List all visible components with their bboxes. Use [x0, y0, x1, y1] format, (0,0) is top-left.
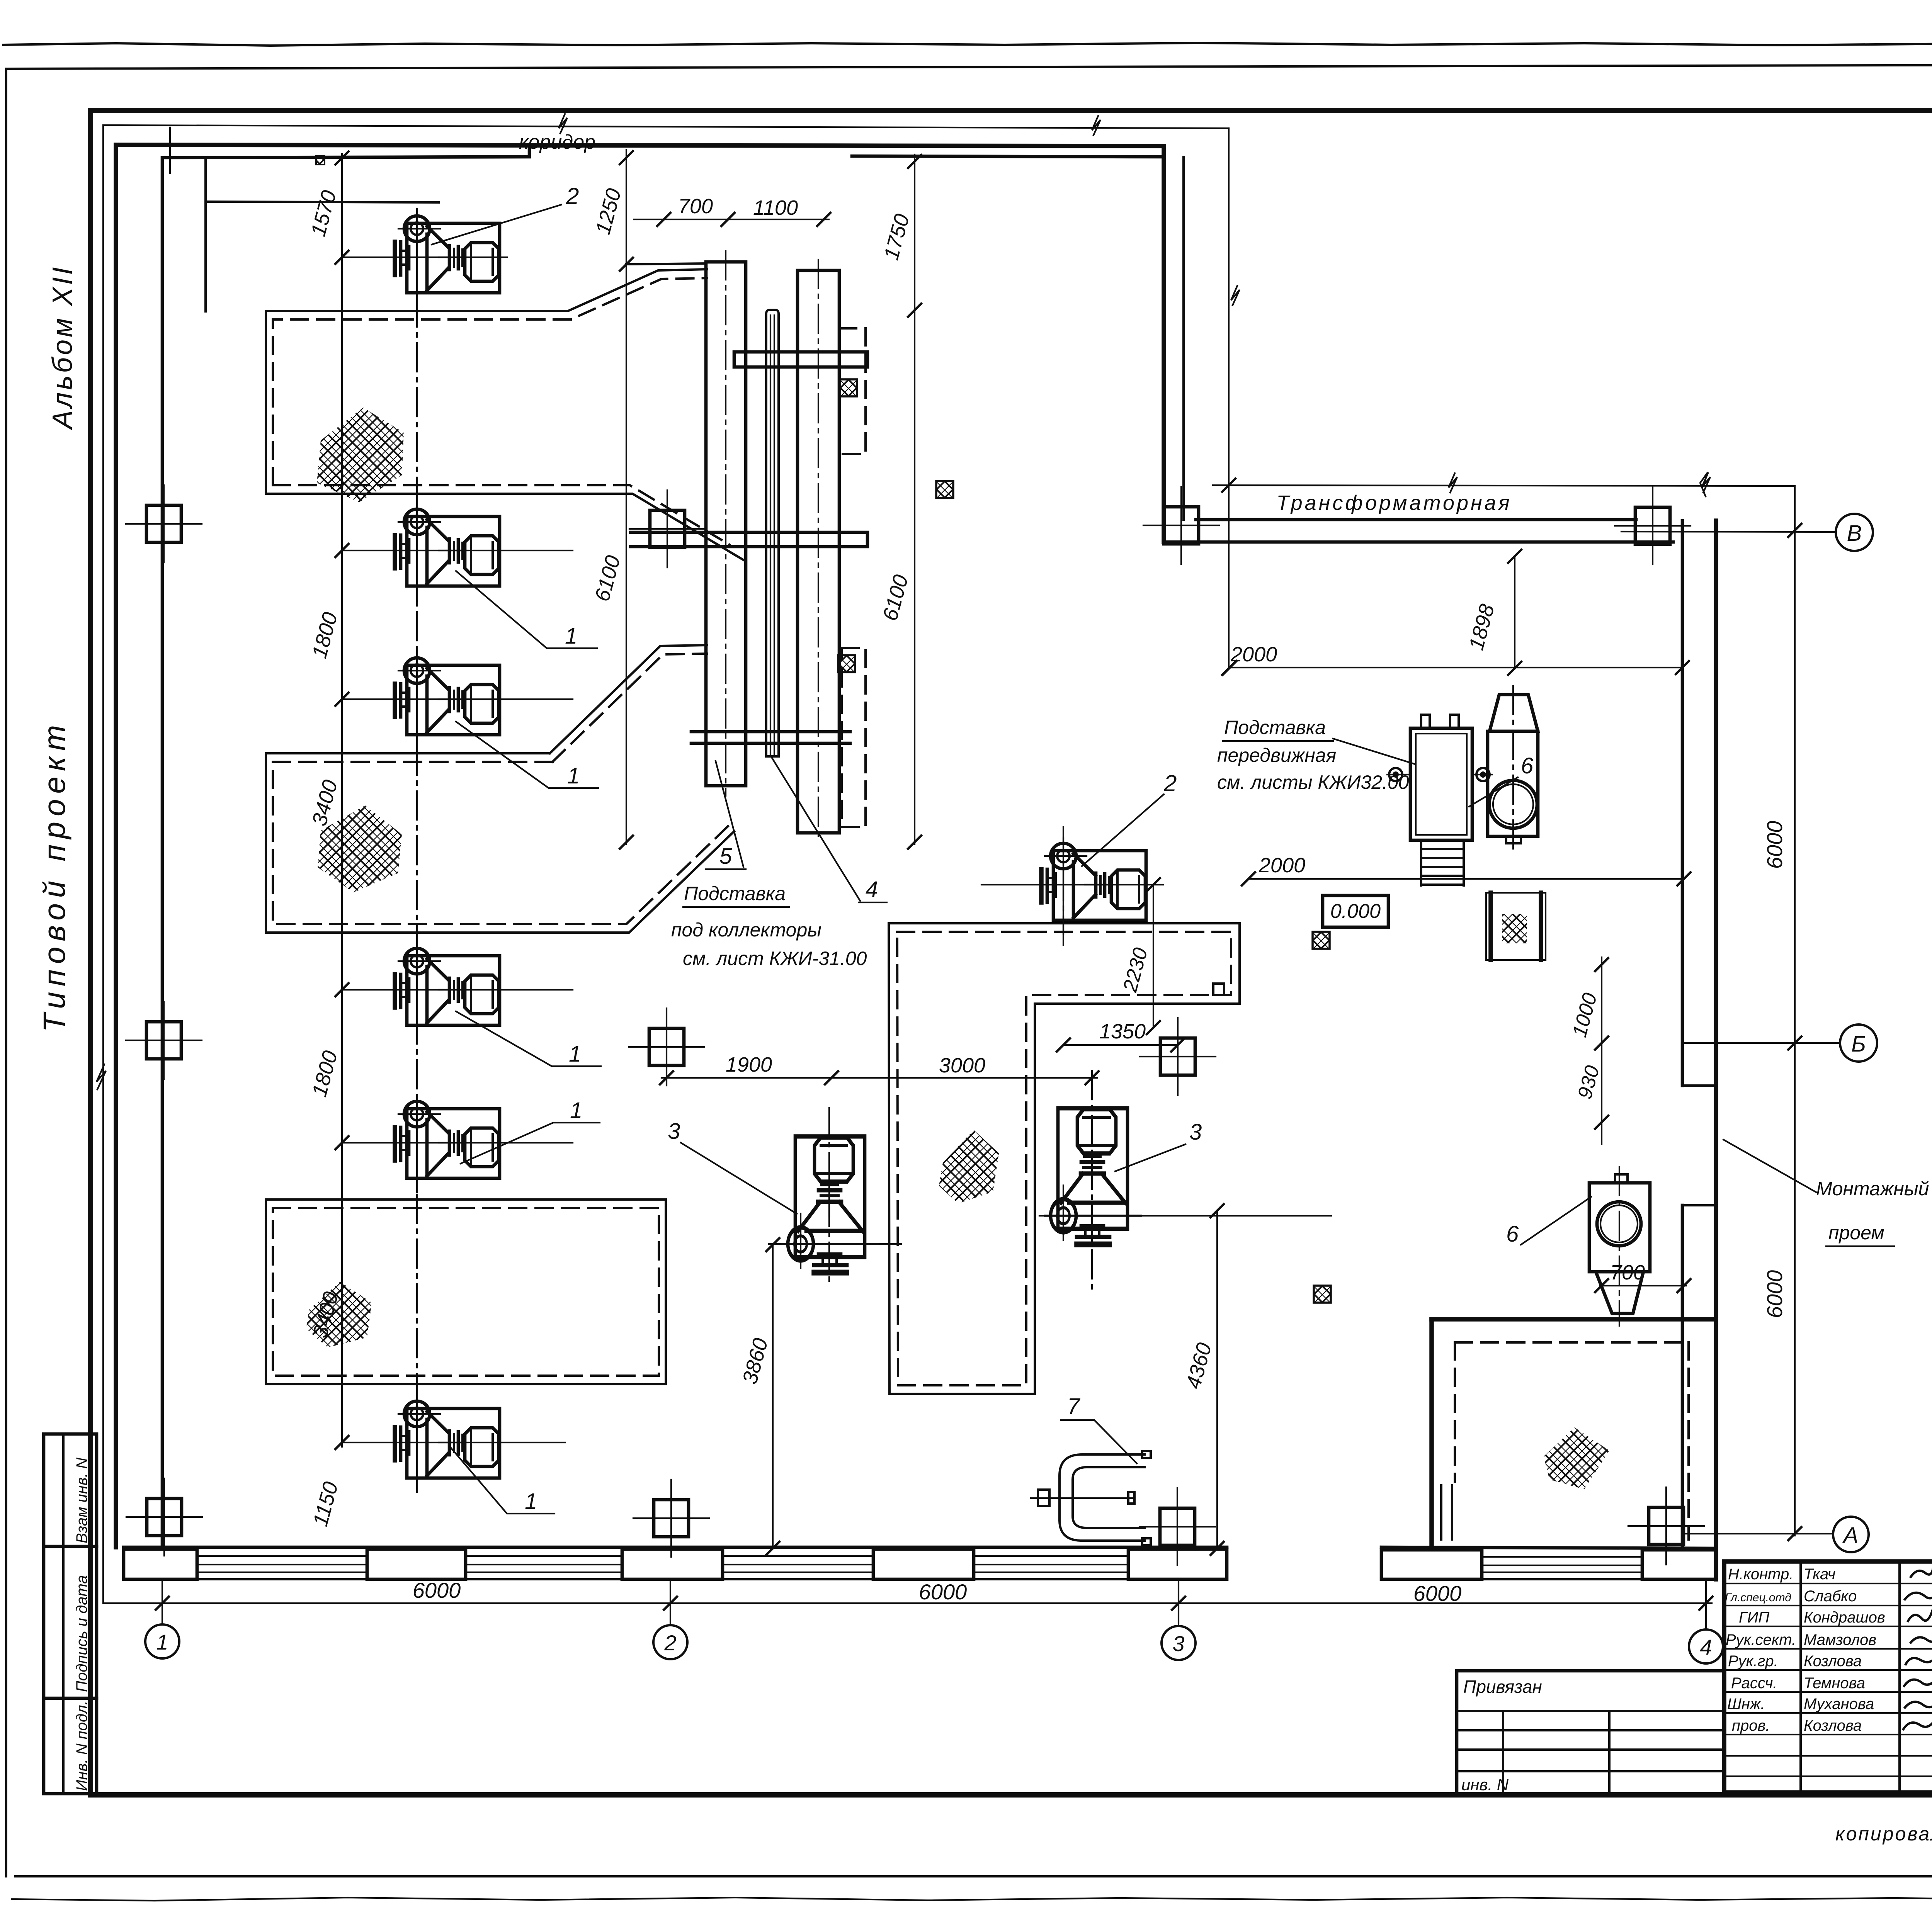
sheet outer thin border	[6, 64, 1932, 69]
dim 1900 / 3000	[662, 1077, 1097, 1079]
svg-text:Шнж.: Шнж.	[1727, 1696, 1765, 1713]
svg-text:Муханова: Муханова	[1804, 1696, 1874, 1713]
bottom-right room inner dashed liner	[1455, 1342, 1689, 1539]
svg-text:3: 3	[1189, 1120, 1202, 1145]
dim 3860	[772, 1245, 774, 1548]
D1 hatch	[317, 408, 404, 502]
svg-text:3000: 3000	[939, 1054, 985, 1077]
svg-text:Подпись и дата: Подпись и дата	[73, 1575, 90, 1692]
svg-text:Н.контр.: Н.контр.	[1728, 1566, 1793, 1583]
right wall outer face	[1714, 521, 1718, 1579]
svg-text:Козлова: Козлова	[1804, 1717, 1862, 1734]
svg-text:Б: Б	[1851, 1031, 1866, 1057]
svg-text:Инв. N подл.: Инв. N подл.	[73, 1701, 90, 1791]
dim line 1750 / 6100 (right of collector)	[914, 155, 915, 844]
svg-text:Подставка: Подставка	[1224, 717, 1326, 738]
svg-text:Подставка: Подставка	[684, 883, 786, 904]
svg-text:3: 3	[1172, 1631, 1184, 1656]
svg-text:В: В	[1847, 521, 1862, 546]
collector stand left bar	[706, 262, 746, 786]
svg-text:2: 2	[664, 1631, 676, 1655]
svg-text:Альбом XII: Альбом XII	[47, 265, 78, 430]
collector stand right bar	[798, 270, 839, 833]
svg-text:копировал Баздырева: копировал Баздырева	[1835, 1823, 1932, 1845]
pump row axis line	[416, 209, 418, 1488]
svg-text:Мамзолов: Мамзолов	[1804, 1631, 1876, 1648]
paper bottom wavy scan edge	[12, 1898, 1932, 1901]
label 2 (middle pump)	[1082, 794, 1164, 866]
bottom dimension line 6000x3	[103, 1602, 1712, 1604]
corridor inner wall right segment	[852, 156, 1164, 157]
wall break mark top right	[1700, 472, 1708, 496]
svg-text:1: 1	[567, 763, 580, 788]
corridor inner wall left segment	[162, 147, 529, 1547]
svg-text:см. листы КЖИ32.00: см. листы КЖИ32.00	[1217, 771, 1409, 793]
svg-text:1100: 1100	[753, 196, 798, 219]
svg-text:коридор: коридор	[519, 131, 595, 153]
svg-text:Кондрашов: Кондрашов	[1804, 1609, 1885, 1626]
svg-text:6000: 6000	[1762, 821, 1787, 869]
transformer room left wall	[1162, 146, 1166, 542]
svg-text:Типовой проект: Типовой проект	[37, 720, 71, 1032]
vertical dim at transformer left	[1228, 128, 1230, 668]
svg-text:Темнова: Темнова	[1804, 1675, 1865, 1692]
svg-text:6000: 6000	[413, 1578, 461, 1602]
right vertical dimension line	[1794, 486, 1796, 1536]
svg-text:Трансформаторная: Трансформаторная	[1276, 491, 1512, 515]
neck top line	[626, 263, 706, 264]
stand crossbar 3	[691, 732, 850, 743]
dim 1000 / 930	[1601, 957, 1602, 1144]
svg-text:Привязан: Привязан	[1463, 1677, 1542, 1697]
svg-text:Слабко: Слабко	[1804, 1588, 1857, 1605]
svg-text:Взам инв. N: Взам инв. N	[73, 1458, 90, 1543]
svg-text:ГИП: ГИП	[1739, 1609, 1770, 1626]
overall top dimension line	[103, 125, 1229, 128]
door jamb in room left wall	[1441, 1485, 1452, 1539]
pump item 3 (vertical, right)	[1045, 1108, 1141, 1244]
stand crossbar 2	[631, 532, 867, 547]
signatures	[1903, 1568, 1932, 1729]
partition step near pump 1	[204, 158, 207, 311]
bottom-right room left wall	[1429, 1319, 1434, 1548]
bottom-right room top wall	[1432, 1317, 1716, 1322]
0.000 elevation box	[1323, 895, 1388, 927]
svg-text:5: 5	[719, 844, 732, 869]
corridor outer wall (top)	[116, 145, 1164, 1547]
pump centerlines	[342, 257, 573, 1442]
pump 2 (item 1)	[395, 503, 500, 600]
right wall inner face with mounting opening gap	[1681, 521, 1684, 1547]
collector pipe (item 4)	[766, 310, 779, 756]
svg-text:пров.: пров.	[1732, 1717, 1770, 1734]
svg-text:проем: проем	[1828, 1222, 1884, 1244]
svg-text:1350: 1350	[1099, 1020, 1146, 1043]
dim 2230	[1153, 885, 1154, 1028]
pump 5 (item 1)	[395, 1096, 500, 1192]
svg-text:1: 1	[570, 1098, 582, 1123]
svg-text:1: 1	[156, 1630, 168, 1654]
svg-text:6000: 6000	[1413, 1581, 1462, 1606]
dim 1350	[1063, 1044, 1178, 1046]
transformer room bottom wall	[1164, 540, 1673, 544]
collector dashed rect lower	[842, 648, 866, 827]
paper top edge (scan)	[3, 43, 1932, 46]
label 2 (pump 1)	[432, 205, 561, 245]
svg-text:Рассч.: Рассч.	[1731, 1675, 1777, 1692]
svg-text:3: 3	[668, 1119, 680, 1144]
dim 4360	[1216, 1211, 1218, 1548]
svg-text:6000: 6000	[1762, 1270, 1787, 1318]
svg-text:Ткач: Ткач	[1804, 1566, 1835, 1583]
svg-text:2: 2	[566, 183, 579, 209]
duct band bottom line	[124, 1578, 1716, 1580]
D4 hatch	[939, 1130, 999, 1203]
svg-text:6000: 6000	[919, 1580, 967, 1604]
stand crossbar 1	[734, 352, 867, 367]
svg-text:2: 2	[1163, 770, 1177, 796]
svg-text:4: 4	[1700, 1635, 1712, 1659]
corridor small dims 700 / 1100	[634, 219, 829, 220]
dim line 1250 / 6100 (left of collector)	[626, 150, 627, 844]
svg-text:Монтажный: Монтажный	[1816, 1178, 1929, 1200]
labels 1 with leaders	[456, 571, 597, 648]
svg-text:1900: 1900	[726, 1053, 772, 1076]
svg-text:передвижная: передвижная	[1217, 744, 1336, 766]
pump 1 (item 2)	[395, 210, 500, 307]
svg-text:0.000: 0.000	[1330, 900, 1381, 923]
anchor markers	[1389, 768, 1402, 781]
margin stamp boxes bottom-left	[44, 1434, 97, 1794]
signature rows	[1725, 1566, 1885, 1734]
pump item 3 (vertical, left)	[782, 1137, 879, 1273]
D2 hatch	[318, 805, 402, 892]
svg-text:700: 700	[678, 195, 713, 218]
svg-text:Рук.гр.: Рук.гр.	[1728, 1653, 1778, 1670]
pump item 2 (middle)	[1041, 838, 1146, 934]
svg-text:1: 1	[569, 1042, 581, 1067]
svg-text:6: 6	[1521, 753, 1534, 778]
duct panels	[124, 1549, 197, 1579]
D4 small marker square	[1213, 984, 1224, 995]
svg-text:2000: 2000	[1259, 854, 1305, 877]
collector dashed rect upper	[839, 328, 866, 454]
pump 4 (item 1)	[395, 943, 500, 1039]
svg-text:1: 1	[525, 1489, 537, 1514]
svg-text:Гл.спец.отд: Гл.спец.отд	[1725, 1591, 1791, 1604]
svg-text:2000: 2000	[1230, 643, 1277, 666]
svg-text:см. лист КЖИ-31.00: см. лист КЖИ-31.00	[683, 948, 867, 969]
svg-text:7: 7	[1067, 1394, 1081, 1419]
svg-text:Козлова: Козлова	[1804, 1653, 1862, 1670]
svg-text:Рук.сект.: Рук.сект.	[1726, 1631, 1796, 1648]
paper bottom edge line	[15, 1875, 1932, 1877]
bottom wall / duct band top line	[124, 1547, 1716, 1548]
svg-text:4: 4	[866, 877, 878, 902]
svg-text:А: А	[1842, 1523, 1859, 1548]
dim 2000 lower	[1248, 878, 1684, 880]
svg-text:700: 700	[1610, 1261, 1645, 1284]
duct band inner lines	[197, 1556, 367, 1572]
pump 3 (item 1)	[395, 652, 500, 749]
dim 700 bottom right	[1600, 1285, 1686, 1286]
svg-text:под коллекторы: под коллекторы	[671, 919, 821, 941]
pump 6 (item 1)	[395, 1395, 500, 1492]
svg-text:инв. N: инв. N	[1461, 1775, 1509, 1794]
transformer dim line	[1213, 485, 1795, 486]
room hatch patch	[1544, 1427, 1609, 1489]
svg-text:6: 6	[1506, 1222, 1519, 1247]
small wall marker	[316, 156, 325, 165]
small marker squares	[936, 481, 953, 498]
svg-text:1: 1	[565, 624, 577, 649]
D3 hatch	[306, 1282, 372, 1347]
dim 2000 upper	[1230, 667, 1682, 668]
